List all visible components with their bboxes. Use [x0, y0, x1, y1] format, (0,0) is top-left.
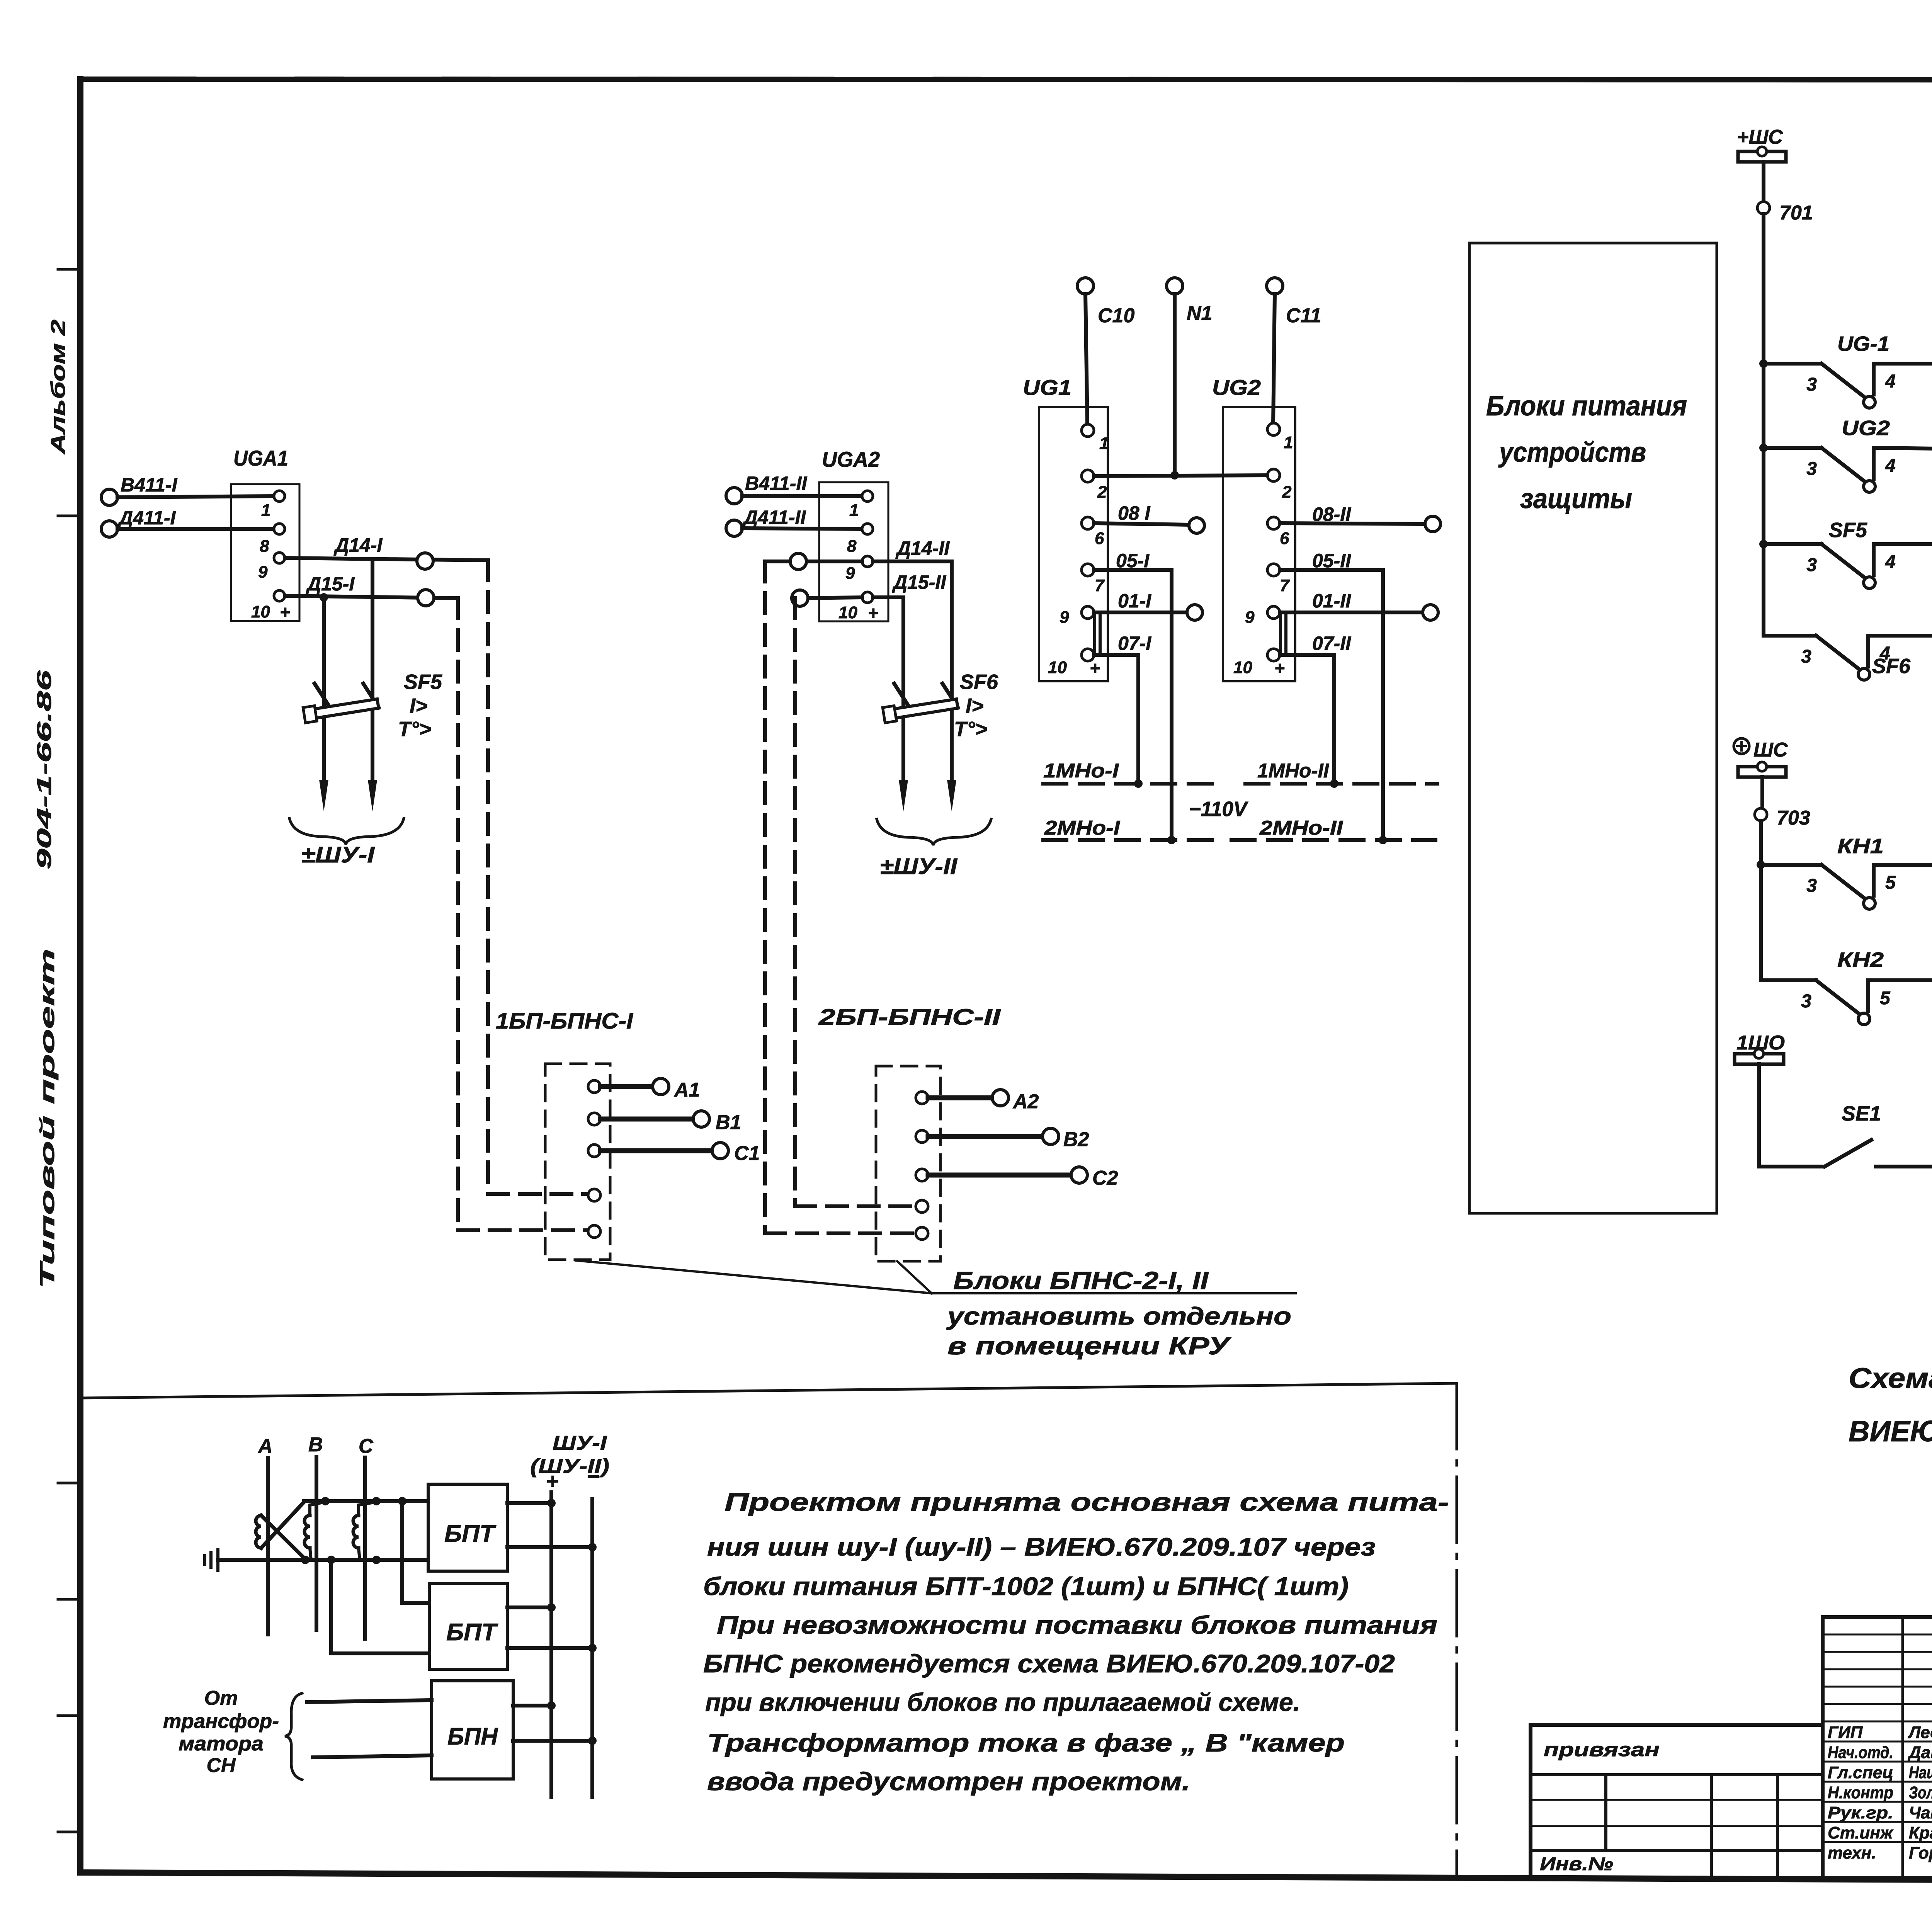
svg-text:Д411-II: Д411-II	[742, 507, 806, 528]
svg-text:1БП-БПНС-I: 1БП-БПНС-I	[496, 1009, 634, 1034]
svg-text:В411-II: В411-II	[745, 473, 807, 494]
svg-text:Трансформатор тока в фазе „: Трансформатор тока в фазе „ В "камер	[707, 1728, 1345, 1757]
svg-text:Рук.гр.: Рук.гр.	[1828, 1803, 1893, 1822]
svg-text:701: 701	[1779, 202, 1813, 224]
svg-text:Чапны: Чапны	[1909, 1803, 1932, 1822]
svg-text:UG-1: UG-1	[1837, 332, 1889, 355]
svg-text:01-II: 01-II	[1312, 590, 1351, 612]
svg-text:1МНо-II: 1МНо-II	[1257, 760, 1330, 782]
svg-text:(ШУ-II): (ШУ-II)	[530, 1455, 609, 1478]
svg-text:UG1: UG1	[1023, 375, 1071, 400]
svg-text:3: 3	[1806, 374, 1817, 395]
svg-text:UG2: UG2	[1212, 375, 1261, 400]
svg-text:1: 1	[849, 501, 859, 520]
svg-text:07-I: 07-I	[1118, 633, 1151, 654]
svg-text:UG2: UG2	[1842, 417, 1890, 440]
svg-text:4: 4	[1885, 371, 1896, 392]
svg-text:Д15-I: Д15-I	[306, 573, 355, 595]
svg-text:703: 703	[1777, 807, 1810, 829]
svg-text:Типовой проект: Типовой проект	[36, 949, 59, 1289]
svg-text:Леонов: Леонов	[1908, 1723, 1932, 1742]
svg-text:N1: N1	[1187, 302, 1212, 325]
svg-text:при включении блоков по пр: при включении блоков по прилагаемой схем…	[705, 1688, 1300, 1716]
svg-text:10: 10	[1233, 658, 1252, 677]
svg-text:Гл.спец: Гл.спец	[1828, 1763, 1893, 1782]
svg-text:С: С	[359, 1435, 374, 1458]
svg-text:3: 3	[1806, 876, 1817, 896]
svg-text:Альбом 2: Альбом 2	[47, 320, 70, 455]
svg-text:Проектом принята основная с: Проектом принята основная схема пита-	[724, 1488, 1449, 1516]
svg-text:Блоки питания: Блоки питания	[1486, 391, 1687, 422]
svg-text:БПТ: БПТ	[446, 1619, 498, 1646]
svg-text:+ШС: +ШС	[1737, 126, 1783, 148]
svg-text:5: 5	[1880, 988, 1891, 1009]
svg-text:ШС: ШС	[1753, 739, 1788, 761]
svg-text:КН1: КН1	[1837, 835, 1884, 858]
svg-text:Д411-I: Д411-I	[117, 507, 176, 529]
svg-text:Д14-I: Д14-I	[333, 534, 383, 556]
svg-text:В2: В2	[1063, 1128, 1089, 1151]
svg-text:Ст.инж: Ст.инж	[1828, 1823, 1894, 1842]
svg-text:В411-I: В411-I	[121, 474, 177, 496]
svg-text:3: 3	[1806, 459, 1817, 479]
svg-text:ШУ-I: ШУ-I	[553, 1432, 607, 1454]
svg-text:При невозможности поставки: При невозможности поставки блоков питани…	[717, 1611, 1437, 1639]
svg-text:1: 1	[1099, 434, 1109, 453]
svg-text:Нач.отд.: Нач.отд.	[1828, 1743, 1893, 1762]
svg-text:+: +	[868, 603, 878, 623]
svg-text:9: 9	[1245, 608, 1255, 627]
svg-text:07-II: 07-II	[1312, 633, 1351, 654]
svg-text:установить отдельно: установить отдельно	[946, 1302, 1291, 1330]
svg-text:SF6: SF6	[960, 670, 998, 694]
svg-text:блоки питания БПТ-1002 (1шт): блоки питания БПТ-1002 (1шт) и БПНС( 1шт…	[703, 1572, 1349, 1600]
svg-text:2МНо-II: 2МНо-II	[1259, 817, 1344, 839]
svg-text:КН2: КН2	[1837, 948, 1884, 971]
svg-text:3: 3	[1806, 555, 1817, 575]
svg-text:ВИЕЮ.670.209.107.ЭЗ: ВИЕЮ.670.209.107.ЭЗ	[1849, 1415, 1932, 1448]
svg-text:6: 6	[1095, 529, 1104, 548]
svg-text:9: 9	[845, 564, 855, 583]
svg-text:Нашельский: Нашельский	[1909, 1763, 1932, 1782]
svg-text:С10: С10	[1098, 304, 1134, 327]
svg-text:10: 10	[251, 602, 270, 621]
svg-text:9: 9	[1060, 608, 1069, 627]
svg-text:трансфор-: трансфор-	[163, 1710, 279, 1733]
svg-text:матора: матора	[179, 1733, 264, 1755]
svg-text:2: 2	[1097, 483, 1107, 502]
svg-text:+: +	[1090, 658, 1100, 678]
svg-text:05-II: 05-II	[1312, 550, 1351, 571]
svg-text:Блоки БПНС-2-I, II: Блоки БПНС-2-I, II	[953, 1267, 1209, 1294]
svg-text:привязан: привязан	[1544, 1739, 1660, 1760]
svg-text:10: 10	[1048, 658, 1067, 677]
svg-text:SF6: SF6	[1872, 655, 1911, 678]
svg-text:5: 5	[1885, 872, 1896, 893]
svg-text:08 I: 08 I	[1118, 502, 1151, 524]
svg-text:±ШУ-II: ±ШУ-II	[880, 854, 958, 879]
svg-text:Схема выполнена на основани: Схема выполнена на основании чертежа	[1849, 1362, 1932, 1394]
svg-text:1: 1	[261, 501, 270, 520]
svg-text:СН: СН	[206, 1754, 236, 1777]
svg-text:SE1: SE1	[1842, 1102, 1881, 1125]
svg-text:−110V: −110V	[1189, 798, 1248, 821]
svg-text:От: От	[204, 1687, 238, 1709]
svg-text:Д14-II: Д14-II	[895, 537, 950, 559]
svg-text:в помещении КРУ: в помещении КРУ	[947, 1332, 1232, 1360]
svg-text:7: 7	[1280, 576, 1290, 595]
svg-text:А: А	[257, 1435, 273, 1458]
svg-text:Золотарева: Золотарева	[1909, 1783, 1932, 1802]
svg-text:Давыдов: Давыдов	[1907, 1743, 1932, 1762]
svg-text:08-II: 08-II	[1312, 503, 1351, 525]
svg-text:1МНо-I: 1МНо-I	[1043, 760, 1119, 782]
svg-text:SF5: SF5	[1829, 519, 1867, 542]
svg-text:С1: С1	[734, 1142, 760, 1165]
svg-text:1: 1	[1284, 433, 1293, 452]
svg-text:ГИП: ГИП	[1828, 1723, 1863, 1742]
svg-text:С2: С2	[1092, 1167, 1118, 1189]
svg-text:ввода предусмотрен проектом.: ввода предусмотрен проектом.	[707, 1767, 1190, 1796]
svg-text:2БП-БПНС-II: 2БП-БПНС-II	[818, 1005, 1002, 1030]
svg-text:904-1-66.86: 904-1-66.86	[33, 670, 56, 869]
svg-text:6: 6	[1280, 529, 1289, 548]
svg-text:В: В	[308, 1434, 323, 1456]
svg-text:7: 7	[1095, 576, 1105, 595]
svg-text:8: 8	[260, 537, 269, 556]
svg-text:8: 8	[847, 537, 857, 556]
svg-text:T°>: T°>	[398, 718, 431, 741]
svg-text:4: 4	[1885, 456, 1896, 476]
svg-text:9: 9	[258, 563, 268, 582]
svg-text:I>: I>	[410, 694, 428, 718]
svg-text:±ШУ-I: ±ШУ-I	[301, 842, 375, 867]
svg-text:UGA2: UGA2	[822, 447, 880, 471]
svg-text:техн.: техн.	[1828, 1844, 1876, 1862]
svg-text:А1: А1	[673, 1079, 700, 1101]
svg-text:4: 4	[1885, 552, 1896, 572]
svg-text:UGA1: UGA1	[233, 446, 288, 470]
svg-text:+: +	[280, 602, 290, 622]
svg-text:Инв.№: Инв.№	[1540, 1854, 1613, 1874]
svg-text:2МНо-I: 2МНо-I	[1044, 817, 1121, 839]
svg-text:устройств: устройств	[1498, 437, 1646, 468]
svg-text:SF5: SF5	[404, 670, 442, 694]
svg-text:защиты: защиты	[1520, 483, 1632, 514]
svg-text:ния шин шу-I (шу-II) – ВИЕЮ.: ния шин шу-I (шу-II) – ВИЕЮ.670.209.107 …	[707, 1532, 1376, 1561]
svg-text:БПТ: БПТ	[444, 1520, 497, 1547]
svg-text:01-I: 01-I	[1118, 590, 1151, 612]
svg-text:10: 10	[838, 603, 857, 622]
svg-text:3: 3	[1801, 991, 1811, 1012]
svg-text:БПН: БПН	[447, 1723, 498, 1750]
svg-text:БПНС рекомендуется схема ВИ: БПНС рекомендуется схема ВИЕЮ.670.209.10…	[703, 1649, 1395, 1678]
svg-text:3: 3	[1801, 646, 1811, 667]
svg-text:Д15-II: Д15-II	[892, 571, 946, 593]
svg-text:Кравцова: Кравцова	[1909, 1823, 1932, 1842]
svg-text:С11: С11	[1286, 304, 1321, 327]
svg-text:T°>: T°>	[954, 718, 987, 741]
svg-text:I>: I>	[966, 694, 984, 718]
svg-text:А2: А2	[1012, 1090, 1039, 1113]
svg-text:Горстка: Горстка	[1909, 1844, 1932, 1862]
svg-text:+: +	[1274, 658, 1285, 678]
svg-text:В1: В1	[716, 1111, 741, 1134]
svg-text:05-I: 05-I	[1116, 550, 1150, 571]
svg-text:Н.контр: Н.контр	[1828, 1783, 1893, 1802]
svg-text:2: 2	[1282, 483, 1292, 502]
